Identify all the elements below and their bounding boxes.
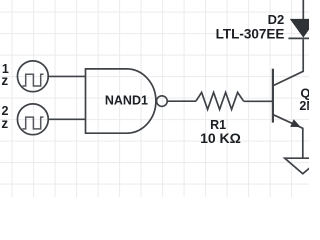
LED D2 triangle	[291, 19, 316, 37]
wire V1 to NAND input A	[49, 75, 86, 77]
svg-text:D2: D2	[268, 12, 285, 27]
svg-text:z: z	[1, 116, 8, 131]
LED D2 cathode bar	[288, 37, 318, 39]
ground symbol	[285, 158, 320, 174]
NAND1 output bubble	[157, 96, 168, 107]
wire NAND output to R1	[167, 100, 196, 102]
transistor Q1 emitter arrow	[291, 120, 299, 126]
transistor Q1 collector lead	[274, 39, 304, 85]
resistor R1 zigzag	[196, 92, 244, 109]
voltage source V2 (square-wave generator)	[17, 104, 48, 135]
transistor Q1 base bar	[272, 69, 274, 123]
NAND gate NAND1 body	[86, 69, 156, 133]
wire R1 to Q1 base	[244, 100, 273, 102]
wire V2 to NAND input B	[49, 118, 86, 120]
svg-text:NAND1: NAND1	[105, 94, 148, 108]
svg-text:2N2222: 2N2222	[299, 99, 309, 113]
transistor Q1 emitter lead	[274, 115, 303, 158]
voltage source V1 (square-wave generator)	[17, 61, 48, 92]
LED D2 anode wire	[302, 0, 304, 19]
svg-text:LTL-307EE: LTL-307EE	[216, 27, 285, 42]
svg-text:10 KΩ: 10 KΩ	[200, 130, 241, 146]
svg-text:z: z	[1, 73, 8, 88]
